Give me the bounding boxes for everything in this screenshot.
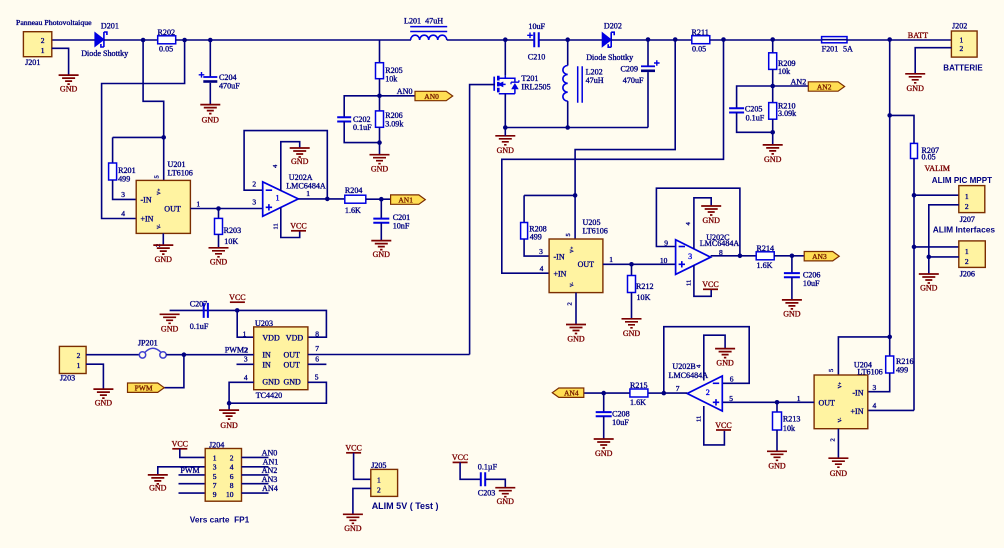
svg-text:1: 1 [243,330,247,339]
connector J202 [951,31,977,57]
wire R210 to ground [772,119,774,145]
wire VCC to J205 pin1 [354,453,371,480]
wire T201 gate [470,85,495,355]
ground C207 [160,314,180,323]
ground U202A [290,148,310,157]
svg-text:R211: R211 [692,28,709,37]
wire C206 to ground [791,277,793,300]
svg-text:0.1uF: 0.1uF [746,114,765,123]
svg-text:9: 9 [213,490,217,499]
svg-text:10uF: 10uF [528,22,545,31]
svg-text:IRL2505: IRL2505 [521,83,550,92]
ground U205 [566,325,586,334]
wire R216 stem [889,337,891,356]
connector J207 [959,186,985,213]
wire U203 pin5 to ground [229,382,326,403]
wire J204 pin8 AN3 [242,483,269,485]
ground R203 [209,248,229,257]
op-amp U204 LT6106 output current sense [814,375,868,429]
ground J207-J206 [919,274,939,283]
wire to ground J206 [928,257,930,274]
svg-text:J202: J202 [952,21,967,30]
svg-text:GND: GND [830,469,848,478]
wire R204 to AN1 flag [366,198,391,200]
svg-text:2: 2 [965,202,969,211]
wire R208 to U205 pin3 [524,239,549,256]
power VCC U202B pin11 [704,406,725,445]
wire J204 pin7 stub [179,483,206,485]
svg-text:J203: J203 [60,374,75,383]
svg-text:7: 7 [213,481,217,490]
wire C208 tap down [603,393,605,412]
svg-text:OUT: OUT [164,205,181,214]
wire J203 pin2 to jumper [86,354,139,356]
wire R213 tap down [776,402,778,412]
svg-text:C205: C205 [745,105,763,114]
svg-text:1: 1 [965,247,969,256]
svg-text:J201: J201 [25,58,40,67]
ground C208 [594,439,614,448]
svg-text:1: 1 [609,255,613,264]
wire R211 to F201 [710,39,822,41]
svg-text:2: 2 [567,302,574,305]
wire J204 pin4 AN1 [242,466,269,468]
ground U201 [153,245,173,254]
svg-text:R202: R202 [158,28,176,37]
connector J206 [959,241,986,268]
node junction U202C out [738,254,743,259]
svg-text:5A: 5A [843,44,853,53]
svg-text:2: 2 [960,44,964,53]
svg-text:2: 2 [377,485,381,494]
svg-text:AN3: AN3 [262,475,278,484]
svg-text:D201: D201 [101,22,119,31]
svg-text:VCC: VCC [172,440,188,449]
wire D201 to R202 [104,39,158,41]
wire C203 to ground [486,479,506,487]
wire L201 to C210 [447,39,534,41]
svg-text:8: 8 [230,481,234,490]
svg-text:2: 2 [77,351,81,360]
ground U202C [701,206,721,215]
svg-text:GND: GND [783,309,801,318]
svg-text:VCC: VCC [229,293,245,302]
svg-text:3: 3 [252,197,256,206]
svg-text:D202: D202 [604,21,622,30]
svg-text:LMC6484A: LMC6484A [669,371,709,380]
svg-text:R215: R215 [630,381,648,390]
svg-text:8: 8 [315,330,319,339]
svg-text:VCC: VCC [290,222,306,231]
wire C201 to ground [380,223,382,241]
wire C201 tap down [380,199,382,219]
svg-text:499: 499 [530,233,542,242]
svg-text:C210: C210 [528,53,546,62]
wire J204 pin6 AN2 [242,474,269,476]
node junction R213 tap [775,400,780,405]
op-amp U202A LMC6484A [263,182,299,217]
svg-text:R213: R213 [783,415,801,424]
wire R214 to AN3 flag [774,255,804,257]
svg-text:AN2: AN2 [262,466,278,475]
svg-text:6: 6 [730,375,734,384]
node junction BATT [887,37,892,42]
svg-text:GND: GND [344,524,362,533]
wire U202B pin7 input [664,392,687,394]
svg-text:OUT: OUT [578,260,595,269]
wire U205 out to U202C pin10 [603,263,676,265]
wire J207 pin1 [914,194,959,196]
wire J203 pin1 to ground [86,364,103,389]
wire R212 tap down [631,264,633,275]
svg-text:0.1uF: 0.1uF [353,123,372,132]
svg-text:1: 1 [275,194,279,203]
resistor R201 [109,163,117,180]
port AN1 [391,195,426,204]
wire D202 to R211 [611,39,692,41]
svg-text:V-: V- [839,417,844,422]
svg-text:GND: GND [284,378,302,387]
svg-text:VDD: VDD [286,333,304,342]
ground J201 [59,75,79,84]
svg-text:GND: GND [371,165,389,174]
svg-text:5: 5 [729,394,733,403]
port AN3 [804,252,839,261]
wire C209 to ground rail [647,72,649,127]
svg-text:IN: IN [262,361,271,370]
svg-text:4: 4 [540,264,544,273]
svg-text:AN2: AN2 [817,83,832,92]
svg-text:GND: GND [95,399,113,408]
wire R207 down to U204 pin4 rail [913,159,915,411]
ground C206 [782,300,802,309]
wire R203 tap down [218,209,220,219]
ground J205 [343,514,363,523]
wire R208 branch [524,194,575,196]
gate driver U203 TC4420 [254,327,308,390]
wire after-R211 tap to U205 pin4 [502,40,724,273]
svg-text:BATT: BATT [908,31,928,40]
svg-text:2: 2 [252,180,256,189]
wire U202A feedback loop [244,131,327,199]
svg-text:V+: V+ [571,246,576,253]
svg-text:0.1uF: 0.1uF [190,322,209,331]
svg-text:5: 5 [154,175,161,178]
svg-text:3: 3 [873,383,877,392]
wire U203 pin4 to ground [229,382,254,403]
resistor R213 [773,412,782,430]
svg-text:R204: R204 [345,186,363,195]
svg-text:VCC: VCC [452,453,468,462]
node junction C205-R210 [770,130,775,135]
wire J206 pin2 [929,256,959,258]
wire U201 pin2 to ground [162,233,164,245]
transistor T201 IRL2505 MOSFET [493,77,495,91]
svg-text:3: 3 [121,190,125,199]
wire C209 branch [647,40,649,66]
capacitor C210 [534,32,539,47]
wire VCC junction to U203 pin8 [237,310,326,337]
wire C206 tap down [791,256,793,274]
capacitor C205 [729,108,744,112]
wire R212 to ground [631,293,633,319]
svg-text:V-: V- [571,282,576,287]
wire U202B pin4 to ground [704,335,725,380]
wire U202C out to AN3 [711,255,757,257]
svg-text:J204: J204 [209,440,224,449]
wire U202C feedback loop [656,188,740,256]
diode D201 [95,33,104,47]
ground U202B [715,349,735,358]
svg-text:3: 3 [244,355,248,364]
svg-text:VCC: VCC [702,280,718,289]
svg-text:GND: GND [907,84,925,93]
svg-text:1.6K: 1.6K [630,398,646,407]
port AN2 [808,82,844,91]
svg-text:-IN: -IN [852,389,863,398]
svg-text:F201: F201 [822,44,839,53]
svg-text:U203: U203 [255,319,273,328]
wire T201 source to ground rail [504,94,506,128]
wire R209 to R210 [772,69,774,102]
resistor R210 [769,103,777,120]
svg-text:BATTERIE: BATTERIE [943,64,983,73]
wire VALIM rail to U204 pin4 [868,409,914,411]
node junction R216 top [887,335,892,340]
svg-text:11: 11 [273,223,280,229]
svg-text:AN1: AN1 [398,196,413,205]
svg-text:AN4: AN4 [564,389,579,398]
wire C205 to junction [737,113,773,133]
node junction R208 top [573,193,578,198]
resistor R202 [158,36,176,44]
svg-text:R212: R212 [636,282,654,291]
svg-text:GND: GND [567,335,585,344]
node junction U202A out [325,197,330,202]
wire C204 tap [209,40,211,77]
wire J201 pin1 to ground [52,48,69,75]
op-amp U201 LT6106 current sense [136,180,190,233]
node junction J206 pin1 [912,245,917,250]
wire C210 to D202 [539,39,602,41]
svg-text:3.09k: 3.09k [778,109,797,118]
svg-text:5: 5 [315,372,319,381]
svg-text:1: 1 [377,476,381,485]
wire R205 tap down [379,40,381,63]
wire R215 to U202B [648,392,664,394]
svg-text:V+: V+ [839,382,844,389]
svg-text:GND: GND [497,497,515,506]
wire U203 pin6 stub [308,363,327,365]
resistor R209 [769,53,777,70]
svg-text:2: 2 [830,438,837,441]
svg-text:2: 2 [965,257,969,266]
wire PWM flag branch [164,355,184,388]
svg-text:47uH: 47uH [586,76,604,85]
svg-text:470uF: 470uF [219,81,240,90]
node junction C204 tap [208,38,213,43]
diode D202 [602,33,611,47]
wire R203 to ground [218,234,220,247]
svg-text:LT6106: LT6106 [583,226,608,235]
wire AN4 to R215 [584,392,630,394]
svg-text:1: 1 [77,361,81,370]
resistor R208 [521,223,528,240]
wire R202-right sense to U201 pin4 [102,40,185,219]
ground J202 [905,74,925,83]
wire BATT rail to U204 pin5 [838,337,889,375]
svg-text:5: 5 [213,472,217,481]
svg-text:GND: GND [716,358,734,367]
svg-text:1: 1 [41,46,45,55]
capacitor C201 [373,219,389,223]
svg-text:OUT: OUT [819,398,836,407]
svg-text:Diode Shottky: Diode Shottky [586,53,634,62]
node junction VCC U203 [235,308,240,313]
svg-text:V-: V- [158,224,163,229]
port AN4 [552,388,584,397]
svg-text:10k: 10k [783,424,796,433]
svg-text:6: 6 [315,355,319,364]
connector J203 [59,346,86,373]
capacitor C203 [481,472,485,486]
svg-text:1: 1 [965,192,969,201]
node junction U202B in [662,391,667,396]
svg-text:LT6106: LT6106 [857,368,882,377]
svg-text:IN: IN [262,351,271,360]
capacitor C206 [784,273,800,277]
wire U202C pin4 to ground [694,198,711,249]
wire J207 pin2 to ground rail [929,205,959,257]
wire VCC to C203 [460,462,480,479]
svg-text:GND: GND [262,378,280,387]
svg-text:2: 2 [245,346,249,355]
svg-text:Vers carte FP1: Vers carte FP1 [190,514,250,524]
ground R213 [767,451,787,460]
port PWM [128,383,165,392]
wire J204 pin9 stub [179,492,206,494]
node junction R201 top [161,135,166,140]
svg-text:Panneau Photovoltaique: Panneau Photovoltaique [16,18,92,27]
node junction C209 tap [646,37,651,42]
capacitor C209 [641,65,655,67]
svg-text:3: 3 [213,463,217,472]
wire U205 pin2 to ground [575,293,577,325]
svg-text:AN3: AN3 [812,252,827,261]
svg-text:9: 9 [664,238,668,247]
ground J204 [148,475,168,484]
wire J204 pin5 stub [179,474,206,476]
svg-text:ALIM 5V ( Test ): ALIM 5V ( Test ) [372,501,439,511]
node junction D201-R202 [141,38,146,43]
ground C201 [371,241,391,250]
svg-text:6: 6 [230,472,234,481]
svg-text:GND: GND [161,324,179,333]
svg-text:JP201: JP201 [138,339,158,348]
svg-text:499: 499 [896,366,908,375]
fuse F201 [822,37,847,43]
svg-text:-IN: -IN [141,195,152,204]
wire U201 out to U202A pin3 [190,208,262,210]
wire J206 pin1 [914,246,959,248]
svg-text:+IN: +IN [554,270,567,279]
svg-text:0.05: 0.05 [159,44,173,53]
wire R207 branch [890,115,914,143]
wire R201 branch [113,136,164,138]
svg-text:470uF: 470uF [623,76,644,85]
node junction R202 right [182,38,187,43]
node junction U203 ground [227,401,232,406]
wire R205 to R206 [379,79,381,111]
wire R202 to L201 [176,39,411,41]
ground AN2 divider [763,145,783,154]
svg-text:2: 2 [41,36,45,45]
wire AN0 to flag [380,95,416,97]
svg-text:VDD: VDD [262,333,280,342]
wire U203 pin7 to T201 gate [308,354,470,356]
node junction R212 tap [629,262,634,267]
svg-text:PWM: PWM [225,346,244,355]
svg-text:AN2: AN2 [791,78,807,87]
svg-text:10k: 10k [385,74,398,83]
svg-text:GND: GND [373,250,391,259]
svg-text:ALIM PIC MPPT: ALIM PIC MPPT [932,176,992,185]
power VCC U202A pin11 [281,208,300,238]
resistor R212 [628,276,636,293]
svg-text:VCC: VCC [715,421,731,430]
svg-text:11: 11 [696,416,703,422]
resistor R203 [215,218,223,234]
capacitor C202 [337,117,351,121]
wire U204 pin2 to ground [837,429,839,459]
node junction R203 tap [216,206,221,211]
ground R212 [622,319,642,328]
wire F201 to J202 [847,39,951,41]
resistor R211 [692,36,710,44]
wire sense tap to U205 pin5 [575,40,675,239]
svg-text:4: 4 [121,209,125,218]
svg-text:V+: V+ [158,188,163,195]
node junction J206 pin2 gnd [927,255,932,260]
connector J204 [205,449,241,502]
svg-text:5: 5 [828,369,835,372]
wire J204 pin10 AN4 [242,492,269,494]
svg-text:C203: C203 [478,488,496,497]
wire J205 pin2 to ground [353,488,371,514]
resistor R214 [756,252,774,260]
svg-text:1: 1 [196,200,200,209]
svg-text:GND: GND [291,157,309,166]
svg-text:GND: GND [155,255,173,264]
svg-text:GND: GND [703,216,721,225]
svg-text:0.05: 0.05 [922,153,936,162]
svg-text:10uF: 10uF [612,418,629,427]
svg-text:OUT: OUT [284,361,301,370]
svg-text:5: 5 [565,233,572,236]
node junction AN0 [377,94,382,99]
wire C202 to junction [344,122,379,143]
svg-text:10uF: 10uF [803,279,820,288]
wire R201 to U201 pin3 [113,180,137,199]
svg-text:1: 1 [306,189,310,198]
capacitor C204 [203,76,217,78]
wire R206 to ground [379,127,381,154]
ground T201 [495,136,515,145]
resistor R204 [345,195,366,203]
svg-text:GND: GND [210,257,228,266]
svg-text:GND: GND [764,155,782,164]
svg-text:4: 4 [244,373,248,382]
